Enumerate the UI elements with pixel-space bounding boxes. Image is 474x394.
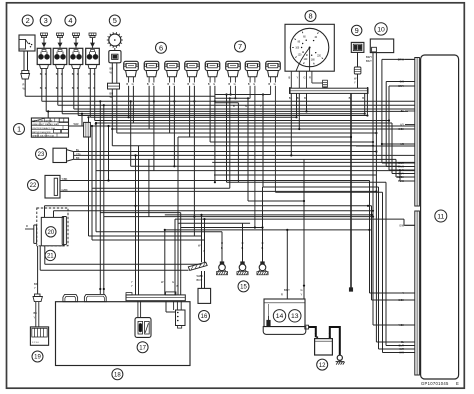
ignition coil 1 bbox=[37, 33, 51, 68]
svg-text:R: R bbox=[281, 293, 283, 297]
svg-text:6: 6 bbox=[159, 43, 163, 52]
node label circle 3 bbox=[40, 15, 51, 26]
svg-text:B: B bbox=[304, 96, 306, 100]
ignition switch 2 body bbox=[19, 35, 35, 51]
svg-text:A/Y: A/Y bbox=[400, 124, 404, 127]
wire vertical group left bbox=[38, 101, 104, 294]
diagram part number text bbox=[421, 381, 459, 386]
svg-text:O: O bbox=[262, 241, 264, 245]
svg-text:B: B bbox=[56, 86, 58, 90]
wire fuse box output bbox=[74, 122, 98, 126]
svg-text:Y: Y bbox=[34, 286, 36, 290]
connector row plug 3 bbox=[165, 61, 180, 86]
wire bar B drops bbox=[289, 93, 368, 155]
wire bus group top bbox=[25, 96, 415, 146]
svg-text:8: 8 bbox=[308, 12, 312, 21]
svg-text:G: G bbox=[132, 82, 134, 86]
connector row plug 5 bbox=[205, 61, 220, 86]
node label circle 23 bbox=[36, 149, 47, 160]
svg-text:B: B bbox=[177, 284, 179, 288]
wire junction dots bbox=[47, 93, 390, 290]
node label circle 10 bbox=[375, 23, 387, 35]
starter relay 17 bbox=[135, 301, 151, 338]
svg-text:12: 12 bbox=[319, 363, 326, 369]
svg-text:BK: BK bbox=[34, 282, 38, 286]
wire battery negative lead bbox=[330, 327, 340, 355]
connector row plug 6 bbox=[226, 61, 241, 86]
wire junction links under connectors 7 bbox=[215, 95, 271, 109]
svg-text:23: 23 bbox=[38, 152, 45, 158]
meter unit 8 dial marks bbox=[292, 32, 323, 72]
wire meter leads bbox=[289, 71, 328, 88]
svg-text:R: R bbox=[309, 76, 311, 80]
spark plug sensor 15-2 bbox=[237, 241, 248, 275]
svg-text:G: G bbox=[152, 82, 154, 86]
svg-text:BK/Y: BK/Y bbox=[197, 278, 203, 282]
svg-text:B: B bbox=[40, 72, 42, 76]
svg-text:B: B bbox=[72, 86, 74, 90]
svg-text:7: 7 bbox=[238, 42, 242, 51]
svg-text:G: G bbox=[304, 76, 306, 80]
ECU 11 body bbox=[421, 55, 459, 379]
svg-text:1 2 3 4: 1 2 3 4 bbox=[32, 342, 39, 344]
svg-text:R: R bbox=[61, 86, 63, 90]
wire battery positive lead bbox=[308, 327, 315, 337]
svg-text:G: G bbox=[234, 82, 236, 86]
svg-text:9: 9 bbox=[355, 26, 359, 35]
plug 18a bbox=[63, 295, 78, 302]
node label circle 14 bbox=[273, 310, 285, 322]
wire switch 2 leads bbox=[21, 51, 30, 96]
svg-text:Y: Y bbox=[354, 81, 356, 85]
oil pressure sensor 16 bbox=[188, 244, 210, 304]
svg-text:BL: BL bbox=[76, 148, 80, 152]
svg-text:B: B bbox=[208, 82, 210, 86]
svg-text:B: B bbox=[362, 96, 364, 100]
svg-text:B: B bbox=[233, 104, 235, 108]
svg-text:Y: Y bbox=[260, 104, 262, 108]
svg-text:W/R: W/R bbox=[74, 122, 79, 126]
ignition coil 4 bbox=[86, 33, 100, 68]
svg-text:G: G bbox=[193, 82, 195, 86]
svg-text:O: O bbox=[221, 241, 223, 245]
svg-text:18: 18 bbox=[114, 372, 121, 378]
svg-text:B: B bbox=[228, 82, 230, 86]
fuse holder bbox=[84, 122, 91, 137]
connector 18c bbox=[174, 301, 185, 328]
svg-text:IGNITION 10A ACC 10A: IGNITION 10A ACC 10A bbox=[32, 127, 55, 130]
svg-text:HEADLIGHT 10A TAIL 10A: HEADLIGHT 10A TAIL 10A bbox=[32, 123, 58, 126]
svg-text:BL/W: BL/W bbox=[398, 180, 405, 183]
svg-text:BR/Y: BR/Y bbox=[366, 55, 372, 59]
svg-text:21: 21 bbox=[47, 254, 54, 260]
node label circle 19 bbox=[32, 351, 43, 362]
svg-text:G/BK: G/BK bbox=[62, 188, 68, 192]
wire vertical group right bbox=[304, 59, 415, 352]
node label circle 22 bbox=[28, 180, 39, 191]
svg-text:METER 10A HORN: METER 10A HORN bbox=[32, 131, 51, 134]
spark plug sensor 15-1 bbox=[216, 241, 227, 275]
connector row plug 8 bbox=[266, 61, 281, 86]
svg-text:R: R bbox=[61, 72, 63, 76]
svg-text:O/BK: O/BK bbox=[398, 128, 404, 131]
svg-text:BR/W: BR/W bbox=[398, 58, 405, 61]
svg-text:B: B bbox=[242, 246, 244, 250]
svg-text:W/G: W/G bbox=[399, 352, 404, 355]
svg-text:BR: BR bbox=[110, 67, 114, 71]
node label circle 16 bbox=[199, 311, 210, 322]
svg-text:G: G bbox=[253, 82, 255, 86]
svg-text:15: 15 bbox=[240, 285, 247, 291]
svg-text:BK: BK bbox=[34, 311, 38, 315]
svg-text:R: R bbox=[77, 86, 79, 90]
svg-text:R: R bbox=[45, 72, 47, 76]
svg-text:19: 19 bbox=[34, 355, 41, 361]
wire coil leads bbox=[40, 68, 96, 120]
ignition coil 3 bbox=[69, 33, 83, 68]
svg-text:B: B bbox=[126, 82, 128, 86]
connector 22 bbox=[45, 175, 68, 198]
svg-text:BK/Y: BK/Y bbox=[366, 59, 372, 63]
svg-text:W/BK: W/BK bbox=[197, 274, 204, 278]
svg-text:4: 4 bbox=[68, 16, 72, 25]
svg-text:GP10701045: GP10701045 bbox=[421, 381, 449, 386]
svg-text:R: R bbox=[45, 86, 47, 90]
svg-text:Y: Y bbox=[297, 76, 299, 80]
svg-text:R: R bbox=[77, 72, 79, 76]
svg-text:17: 17 bbox=[139, 345, 146, 351]
svg-text:B: B bbox=[167, 82, 169, 86]
battery 12 bbox=[315, 333, 333, 356]
svg-text:B: B bbox=[88, 86, 90, 90]
wire bus group lower bbox=[40, 264, 201, 270]
svg-text:B: B bbox=[349, 96, 351, 100]
ignition switch 5 rotor bbox=[107, 32, 123, 48]
node label circle 12 bbox=[317, 359, 328, 370]
connector 23 bbox=[53, 148, 80, 163]
wire relay bottom leads bbox=[34, 282, 38, 290]
svg-text:B: B bbox=[289, 76, 291, 80]
connector row plug 4 bbox=[185, 61, 200, 86]
svg-text:Y: Y bbox=[301, 293, 303, 297]
svg-text:G: G bbox=[245, 104, 247, 108]
svg-text:16: 16 bbox=[201, 314, 208, 320]
svg-text:BK/Y: BK/Y bbox=[284, 288, 290, 292]
svg-text:B: B bbox=[56, 72, 58, 76]
node label circle 21 bbox=[45, 250, 55, 260]
svg-text:Y: Y bbox=[34, 316, 36, 320]
node label circle 13 bbox=[289, 310, 301, 322]
svg-text:11: 11 bbox=[437, 213, 444, 220]
connector row plug 1 bbox=[124, 61, 139, 86]
svg-text:B: B bbox=[289, 96, 291, 100]
harness junction bar B bbox=[290, 87, 369, 94]
node label circle 1 bbox=[14, 124, 25, 135]
relay 10 unit bbox=[366, 39, 415, 325]
svg-text:BR/Y: BR/Y bbox=[398, 85, 404, 88]
svg-text:10: 10 bbox=[377, 26, 385, 33]
meter unit 8 case bbox=[285, 24, 334, 71]
svg-text:R: R bbox=[93, 72, 95, 76]
node label circle 20 bbox=[46, 227, 56, 237]
fuse box 1 bbox=[31, 118, 68, 138]
node label circle 11 bbox=[435, 210, 447, 222]
node label circle 15 bbox=[238, 281, 249, 292]
engine case 18 bbox=[56, 302, 191, 366]
svg-text:Y/BK: Y/BK bbox=[62, 177, 68, 181]
ground symbol bbox=[336, 355, 345, 364]
wire ECU stubs bbox=[397, 58, 415, 354]
svg-text:B: B bbox=[72, 72, 74, 76]
svg-text:Y: Y bbox=[131, 284, 133, 288]
svg-text:Y: Y bbox=[131, 280, 133, 284]
wire magneto leads labels bbox=[131, 280, 179, 288]
wire connector row leads bbox=[129, 86, 276, 236]
svg-text:G: G bbox=[172, 280, 174, 284]
connector 19 plug bbox=[33, 294, 42, 327]
svg-text:G: G bbox=[274, 82, 276, 86]
svg-text:B: B bbox=[147, 82, 149, 86]
svg-text:Y/G: Y/G bbox=[76, 152, 80, 156]
svg-text:B: B bbox=[262, 246, 264, 250]
svg-text:G/BK: G/BK bbox=[398, 299, 404, 302]
svg-text:R: R bbox=[23, 83, 25, 87]
svg-text:B: B bbox=[221, 246, 223, 250]
svg-text:22: 22 bbox=[30, 183, 37, 189]
svg-text:B: B bbox=[187, 82, 189, 86]
svg-text:20: 20 bbox=[47, 230, 54, 236]
node label circle 2 bbox=[22, 15, 33, 26]
plug 18b bbox=[84, 294, 106, 301]
node label circle 7 bbox=[235, 41, 246, 52]
junction box 13 14 bbox=[263, 288, 308, 334]
svg-text:BR: BR bbox=[110, 92, 114, 96]
node label circle 9 bbox=[352, 25, 362, 35]
svg-text:G: G bbox=[173, 82, 175, 86]
svg-text:1: 1 bbox=[17, 125, 21, 134]
connector row plug 2 bbox=[144, 61, 159, 86]
connector 19 socket bbox=[30, 327, 48, 345]
svg-text:B: B bbox=[88, 72, 90, 76]
svg-text:G/W: G/W bbox=[399, 224, 405, 227]
svg-text:G: G bbox=[213, 82, 215, 86]
ignition coil 2 bbox=[53, 33, 67, 68]
svg-text:E: E bbox=[456, 381, 459, 386]
svg-text:R: R bbox=[26, 224, 28, 228]
node label circle 8 bbox=[305, 11, 316, 22]
magneto bar 18 bbox=[126, 292, 185, 301]
node label circle 4 bbox=[65, 15, 76, 26]
svg-text:BK: BK bbox=[76, 156, 80, 160]
relay 20 21 assembly bbox=[25, 208, 68, 246]
svg-text:R: R bbox=[93, 86, 95, 90]
svg-text:BK: BK bbox=[401, 110, 405, 113]
node label circle 17 bbox=[137, 342, 148, 353]
wire vertical group center bbox=[109, 93, 352, 312]
svg-text:B: B bbox=[40, 86, 42, 90]
node label circle 18 bbox=[112, 369, 123, 380]
svg-text:B: B bbox=[248, 82, 250, 86]
diode 9 unit bbox=[351, 42, 364, 88]
svg-text:O: O bbox=[242, 241, 244, 245]
svg-text:Y/BK: Y/BK bbox=[399, 324, 405, 327]
svg-text:14: 14 bbox=[276, 313, 284, 320]
wire bus group middle bbox=[45, 146, 415, 240]
connector 5 plug bbox=[108, 48, 122, 146]
svg-text:BL/BK: BL/BK bbox=[397, 176, 404, 179]
svg-text:3: 3 bbox=[44, 16, 48, 25]
connector row plug 7 bbox=[245, 61, 260, 86]
svg-text:B: B bbox=[297, 96, 299, 100]
svg-text:G: G bbox=[301, 288, 303, 292]
wire starter cable blob bbox=[349, 288, 352, 291]
node label circle 6 bbox=[156, 42, 167, 53]
svg-text:SPARE 10A TURN 10A: SPARE 10A TURN 10A bbox=[32, 135, 54, 138]
ECU 11 connector bars bbox=[415, 58, 420, 376]
node label circle 5 bbox=[109, 15, 120, 26]
svg-text:2: 2 bbox=[26, 16, 30, 25]
svg-text:Y: Y bbox=[203, 249, 205, 253]
svg-text:A/B: A/B bbox=[400, 143, 404, 146]
svg-text:O/G: O/G bbox=[400, 81, 405, 84]
svg-text:5: 5 bbox=[113, 16, 117, 25]
svg-text:B: B bbox=[268, 82, 270, 86]
svg-text:13: 13 bbox=[291, 313, 299, 320]
spark plug sensor 15-3 bbox=[257, 241, 268, 275]
